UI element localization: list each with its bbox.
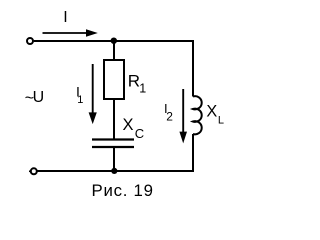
resistor R1	[104, 60, 124, 99]
svg-text:C: C	[135, 126, 144, 141]
node A (top junction)	[111, 38, 117, 44]
svg-text:I: I	[63, 9, 67, 26]
terminal T2 (bottom-left input)	[31, 168, 37, 174]
inductor XL (coil)	[193, 96, 202, 134]
wire top (terminal to top-right corner)	[34, 40, 194, 42]
current arrow I2	[179, 89, 187, 143]
wire right (top corner down to coil)	[192, 40, 194, 97]
wire bottom (terminal to bottom-right corner)	[38, 170, 195, 172]
svg-text:X: X	[206, 102, 217, 120]
wire (resistor to capacitor)	[113, 99, 115, 140]
node B (bottom junction)	[111, 168, 117, 174]
label R1	[128, 71, 147, 95]
label XC	[123, 116, 145, 141]
svg-text:R: R	[128, 71, 140, 90]
svg-text:L: L	[218, 115, 224, 127]
current arrow I	[43, 29, 98, 37]
label XL	[206, 102, 224, 126]
wire right (coil to bottom corner)	[192, 134, 194, 171]
svg-text:X: X	[123, 116, 134, 134]
capacitor XC	[92, 140, 134, 148]
label I2	[164, 101, 173, 123]
terminal T1 (top-left input)	[27, 38, 33, 44]
wire (junction to resistor)	[113, 41, 115, 61]
svg-text:Рис. 19: Рис. 19	[92, 181, 154, 200]
label ~U (source voltage)	[25, 89, 44, 107]
svg-text:1: 1	[77, 94, 83, 106]
current arrow I1	[89, 64, 97, 124]
wire stub left of T2	[29, 170, 31, 172]
svg-text:1: 1	[139, 82, 146, 96]
svg-text:U: U	[33, 89, 45, 106]
label I1	[76, 84, 83, 107]
wire (capacitor to bottom junction)	[113, 147, 115, 171]
svg-text:2: 2	[166, 109, 173, 123]
